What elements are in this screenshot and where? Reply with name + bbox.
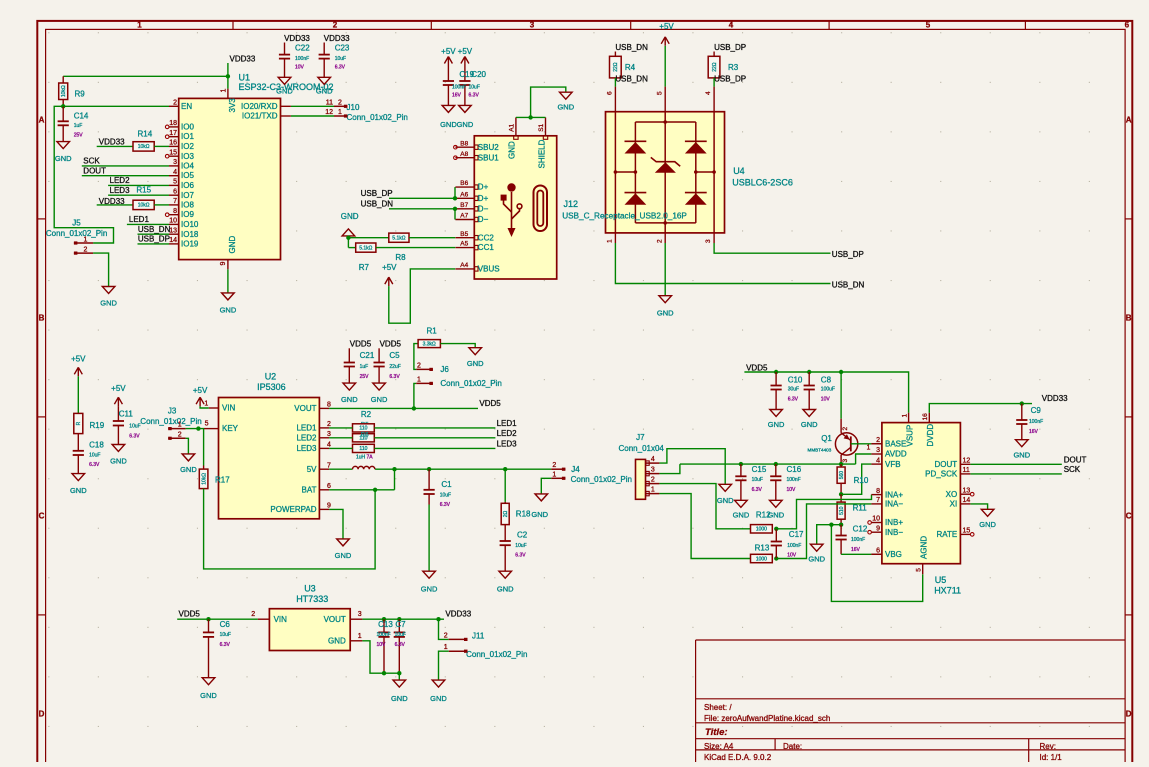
svg-text:D−: D− xyxy=(478,204,489,213)
svg-text:2: 2 xyxy=(178,431,182,438)
svg-text:Conn_01x04: Conn_01x04 xyxy=(619,444,665,453)
svg-text:SCK: SCK xyxy=(83,157,100,166)
svg-text:GND: GND xyxy=(100,299,117,308)
svg-text:1: 1 xyxy=(651,486,655,493)
svg-text:7: 7 xyxy=(173,198,177,205)
svg-text:Date:: Date: xyxy=(783,742,802,751)
junction J11 riser xyxy=(436,617,440,621)
svg-text:GND: GND xyxy=(421,585,438,594)
wire SCK to label xyxy=(970,473,1061,475)
svg-text:R11: R11 xyxy=(853,504,868,513)
J12 pin SBU1 (A8) xyxy=(455,157,474,159)
svg-text:RATE: RATE xyxy=(936,530,957,539)
svg-text:560: 560 xyxy=(839,471,845,480)
U5 pin INB+ (10) xyxy=(871,522,882,524)
junction AGND riser xyxy=(829,523,833,527)
svg-text:15: 15 xyxy=(169,149,177,156)
svg-text:VSUP: VSUP xyxy=(906,425,915,447)
U2 pin LED1 (2) xyxy=(319,427,329,429)
J12 USB-C plug glyph xyxy=(534,186,548,232)
svg-text:LED2: LED2 xyxy=(296,433,317,442)
svg-text:R10: R10 xyxy=(854,476,869,485)
svg-text:U5: U5 xyxy=(935,575,947,585)
svg-text:6.3V: 6.3V xyxy=(788,397,799,403)
U2 pin VOUT (8) xyxy=(319,407,329,409)
J7 pin 4 xyxy=(646,462,660,464)
svg-text:GND: GND xyxy=(341,395,358,404)
junction C7 xyxy=(397,617,401,621)
wire U4 pin3 to USB_DP label xyxy=(714,243,830,253)
wire VDD33 to R15 xyxy=(97,204,133,206)
svg-text:LED3: LED3 xyxy=(296,444,317,453)
svg-text:2: 2 xyxy=(327,421,331,428)
svg-text:USB_DP: USB_DP xyxy=(714,43,746,52)
svg-text:2: 2 xyxy=(444,632,448,639)
resistor R4 22R xyxy=(614,52,616,57)
U1 pin EN (2) xyxy=(169,105,179,107)
svg-text:IO7: IO7 xyxy=(181,191,194,200)
svg-text:2Ω: 2Ω xyxy=(503,510,509,517)
svg-text:4: 4 xyxy=(651,456,655,463)
svg-text:C6: C6 xyxy=(220,620,231,629)
wire +5V to U4 pin5 xyxy=(664,46,666,87)
wire Q1 base to U5 BASE xyxy=(851,443,872,445)
wire VOUT to VDD5 label xyxy=(329,407,478,409)
svg-text:100uF: 100uF xyxy=(821,387,835,393)
svg-text:8: 8 xyxy=(876,488,880,495)
svg-text:POWERPAD: POWERPAD xyxy=(270,505,316,514)
ground below C6 xyxy=(202,678,215,685)
svg-text:R14: R14 xyxy=(138,130,153,139)
wire +5V to VBUS xyxy=(389,269,455,323)
svg-text:6.3V: 6.3V xyxy=(469,93,480,99)
svg-text:A: A xyxy=(39,116,45,125)
U2 pin POWERPAD (9) xyxy=(319,508,329,510)
junction C13 bottom xyxy=(382,671,386,675)
wire U4 pin2 to ground xyxy=(664,243,666,296)
wire VDD33 to R14 xyxy=(97,145,133,147)
svg-text:C5: C5 xyxy=(389,351,400,360)
U1 pin IO3 (15) xyxy=(169,155,179,157)
ground below C10 xyxy=(770,410,783,417)
capacitor C16 xyxy=(775,464,777,476)
svg-text:6.3V: 6.3V xyxy=(129,433,140,439)
svg-text:IO0: IO0 xyxy=(181,123,194,132)
svg-text:C9: C9 xyxy=(1031,406,1042,415)
svg-text:2: 2 xyxy=(417,362,421,369)
wire +5V to VIN xyxy=(200,406,209,408)
svg-text:5: 5 xyxy=(926,20,931,29)
svg-text:10uF: 10uF xyxy=(89,452,100,458)
capacitor C8 xyxy=(808,372,810,386)
svg-text:1000: 1000 xyxy=(756,556,767,562)
svg-text:IO18: IO18 xyxy=(181,230,199,239)
resistor R3 22R xyxy=(713,52,715,57)
U1 pin IO6 (5) xyxy=(169,184,179,186)
svg-text:22uF: 22uF xyxy=(389,364,400,370)
wire +5V to R19 xyxy=(77,376,79,413)
junction C1 xyxy=(427,467,431,471)
resistor R8 5.1k xyxy=(389,233,409,242)
capacitor C15 xyxy=(740,464,742,476)
U1 pin GND (9) xyxy=(227,260,229,270)
svg-text:VBUS: VBUS xyxy=(478,265,500,274)
svg-text:1: 1 xyxy=(417,376,421,383)
J12 pin SBU2 (B8) xyxy=(455,146,474,148)
junction C13 xyxy=(382,617,386,621)
svg-text:10V: 10V xyxy=(821,397,831,403)
svg-text:7: 7 xyxy=(327,462,331,469)
IC U1 ESP32-C3-WROOM-02 body xyxy=(179,98,281,259)
svg-text:7: 7 xyxy=(876,497,880,504)
ground below C2 xyxy=(499,571,512,578)
svg-text:13: 13 xyxy=(963,487,971,494)
svg-text:1: 1 xyxy=(444,644,448,651)
svg-text:USB_DN: USB_DN xyxy=(615,74,648,83)
svg-text:GND: GND xyxy=(531,510,548,519)
svg-text:B: B xyxy=(1126,314,1132,323)
junction BAT/loop xyxy=(373,488,377,492)
ground at XI xyxy=(981,509,994,516)
capacitor C11 10uF xyxy=(117,406,119,421)
svg-text:AVDD: AVDD xyxy=(885,450,907,459)
U5 pin DVDD (16) xyxy=(928,413,930,423)
U3 pin VIN (2) xyxy=(258,618,270,620)
svg-text:4: 4 xyxy=(705,91,712,95)
svg-text:D: D xyxy=(39,710,45,719)
U1 pin IO0 (18) xyxy=(169,126,179,128)
svg-text:B7: B7 xyxy=(460,202,468,209)
svg-text:6.3V: 6.3V xyxy=(515,553,526,559)
wire LED3 xyxy=(108,194,169,196)
svg-text:100nF: 100nF xyxy=(851,537,865,543)
svg-text:C21: C21 xyxy=(360,351,375,360)
svg-text:R8: R8 xyxy=(395,253,406,262)
svg-text:R17: R17 xyxy=(215,476,230,485)
svg-text:C10: C10 xyxy=(788,375,803,384)
junction A1/S1 xyxy=(528,115,532,119)
svg-text:GND: GND xyxy=(328,637,346,646)
U3 pin GND (1) xyxy=(350,640,362,642)
wire U3 GND to rail xyxy=(362,641,399,680)
svg-text:USB_DN: USB_DN xyxy=(832,280,865,289)
IC U4 USBLC6-2SC6 body xyxy=(606,112,725,233)
svg-text:16: 16 xyxy=(169,140,177,147)
J7 pin 1 xyxy=(646,493,660,495)
svg-text:4: 4 xyxy=(729,20,734,29)
svg-text:13: 13 xyxy=(169,227,177,234)
svg-text:DVDD: DVDD xyxy=(926,424,935,447)
svg-text:+5V: +5V xyxy=(382,263,397,272)
svg-text:2: 2 xyxy=(656,239,663,243)
svg-text:INA+: INA+ xyxy=(885,490,903,499)
svg-text:16V: 16V xyxy=(1029,429,1039,435)
svg-text:XO: XO xyxy=(946,490,958,499)
wire U1 TXD to J10 xyxy=(291,115,334,117)
svg-text:DOUT: DOUT xyxy=(83,167,106,176)
wire 5V pin to inductor xyxy=(329,468,352,470)
ground at J4 xyxy=(535,494,548,501)
svg-text:1uF: 1uF xyxy=(360,364,369,370)
wire to R18 xyxy=(504,469,506,502)
svg-text:6: 6 xyxy=(1125,20,1130,29)
wire R8 to CC2 xyxy=(409,237,455,239)
IC U2 IP5306 body xyxy=(219,398,320,519)
svg-text:10kΩ: 10kΩ xyxy=(61,85,67,97)
svg-text:16V: 16V xyxy=(452,93,462,99)
wire LED1 xyxy=(127,223,169,225)
svg-text:VDD5: VDD5 xyxy=(179,610,201,619)
svg-text:16V: 16V xyxy=(851,547,861,553)
svg-text:7A: 7A xyxy=(367,454,374,460)
U4 zener diode xyxy=(655,162,676,173)
svg-text:GND: GND xyxy=(440,120,457,129)
wire VFB to R10/R11 node xyxy=(841,464,871,494)
ground at J5 xyxy=(102,287,115,294)
U2 pin VIN (1) xyxy=(209,407,219,409)
ground at J12 shield xyxy=(560,92,573,99)
svg-text:MMBT4403: MMBT4403 xyxy=(808,447,832,452)
svg-text:1: 1 xyxy=(607,239,614,243)
svg-text:GND: GND xyxy=(467,359,484,368)
svg-text:VDD5: VDD5 xyxy=(746,364,768,373)
svg-text:D+: D+ xyxy=(478,183,489,192)
svg-text:11: 11 xyxy=(963,467,970,474)
svg-text:IO4: IO4 xyxy=(181,162,194,171)
svg-text:C8: C8 xyxy=(821,375,832,384)
svg-text:+5V: +5V xyxy=(659,22,674,31)
svg-text:10kΩ: 10kΩ xyxy=(201,473,207,485)
junction R12/C17 xyxy=(774,527,778,531)
wire R15 to U1 IO8 xyxy=(154,204,169,206)
wire R11 bottom to ground xyxy=(817,525,841,545)
svg-text:R13: R13 xyxy=(755,544,770,553)
svg-text:12: 12 xyxy=(963,458,971,465)
svg-text:VDD5: VDD5 xyxy=(479,399,501,408)
svg-text:C23: C23 xyxy=(335,44,350,53)
capacitor C9 100nF xyxy=(1021,404,1023,420)
svg-text:C18: C18 xyxy=(89,441,104,450)
svg-text:2: 2 xyxy=(552,462,556,469)
svg-text:15: 15 xyxy=(963,528,971,535)
svg-text:5.1kΩ: 5.1kΩ xyxy=(392,236,405,242)
svg-text:A6: A6 xyxy=(460,191,468,198)
svg-text:1: 1 xyxy=(358,633,362,640)
U5 pin AGND (5) xyxy=(922,564,924,575)
U5 pin DOUT (12) xyxy=(960,463,970,465)
wire J6 pin2 to R1 xyxy=(414,344,418,370)
svg-text:GND: GND xyxy=(657,309,674,318)
svg-text:R1: R1 xyxy=(427,326,438,335)
svg-text:10uF: 10uF xyxy=(129,424,140,430)
svg-text:USBLC6-2SC6: USBLC6-2SC6 xyxy=(732,178,793,188)
svg-text:25V: 25V xyxy=(74,133,84,139)
svg-text:AGND: AGND xyxy=(919,536,928,559)
wire 5V to BAT xyxy=(394,469,396,490)
resistor R17 10k xyxy=(203,466,205,470)
svg-text:30uF: 30uF xyxy=(788,387,799,393)
U5 pin VSUP (1) xyxy=(908,413,910,423)
svg-text:10: 10 xyxy=(169,218,177,225)
svg-text:LED3: LED3 xyxy=(110,186,131,195)
capacitor C23 10uF xyxy=(323,43,325,55)
svg-text:R18: R18 xyxy=(516,510,531,519)
svg-text:10: 10 xyxy=(872,516,880,523)
junction R18 xyxy=(503,467,507,471)
svg-text:10V: 10V xyxy=(787,553,797,559)
wire CC2 net xyxy=(348,237,388,239)
svg-text:BAT: BAT xyxy=(302,485,317,494)
junction J6 riser xyxy=(412,406,416,410)
svg-text:3V3: 3V3 xyxy=(228,98,237,113)
wire USB_DP xyxy=(138,243,170,245)
ground at J11 xyxy=(432,680,445,687)
wire U1 RXD to J10 xyxy=(291,105,334,107)
svg-text:6: 6 xyxy=(607,91,614,95)
ground at J7 pin4 xyxy=(719,484,732,491)
svg-text:110: 110 xyxy=(359,426,367,432)
svg-text:1: 1 xyxy=(137,20,142,29)
resistor R7 5.1k xyxy=(356,243,376,252)
svg-text:GND: GND xyxy=(228,236,237,254)
svg-text:R6: R6 xyxy=(361,433,369,439)
svg-text:VFB: VFB xyxy=(885,460,901,469)
wire R7 to CC1 xyxy=(376,247,455,249)
U4 pin 5 xyxy=(664,87,666,112)
svg-text:D+: D+ xyxy=(478,194,489,203)
svg-text:VIN: VIN xyxy=(222,404,236,413)
U1 pin IO8 (7) xyxy=(169,204,179,206)
svg-text:GND: GND xyxy=(276,87,293,96)
svg-text:22Ω: 22Ω xyxy=(613,62,619,72)
ground below C15 xyxy=(735,500,748,507)
svg-text:INB−: INB− xyxy=(885,528,903,537)
svg-text:INB+: INB+ xyxy=(885,518,903,527)
capacitor C21 xyxy=(348,348,350,362)
svg-text:GND: GND xyxy=(457,120,474,129)
svg-text:B5: B5 xyxy=(460,231,468,238)
ground below C8 xyxy=(803,410,816,417)
svg-text:J7: J7 xyxy=(636,433,645,442)
capacitor C6 10uF xyxy=(208,619,210,632)
svg-text:+5V: +5V xyxy=(458,47,473,56)
svg-text:VIN: VIN xyxy=(274,615,288,624)
svg-text:2: 2 xyxy=(84,246,88,253)
power +5V at C19 xyxy=(444,57,452,66)
svg-text:3: 3 xyxy=(327,431,331,438)
svg-text:5: 5 xyxy=(205,421,209,428)
U1 pin IO1 (17) xyxy=(169,136,179,138)
svg-text:10V: 10V xyxy=(377,642,387,648)
svg-text:6: 6 xyxy=(876,548,880,555)
svg-text:12: 12 xyxy=(325,109,333,116)
svg-text:100nF: 100nF xyxy=(787,543,801,549)
wire DVDD to VDD33 xyxy=(929,404,1032,413)
svg-text:LED2: LED2 xyxy=(110,176,131,185)
svg-text:C12: C12 xyxy=(853,524,868,533)
svg-text:IO3: IO3 xyxy=(181,152,194,161)
junction KEY xyxy=(196,426,200,430)
svg-text:J10: J10 xyxy=(347,103,360,112)
svg-text:GND: GND xyxy=(497,585,514,594)
U5 pin RATE (15) xyxy=(960,533,970,535)
capacitor C22 100nF xyxy=(284,43,286,55)
svg-text:IO5: IO5 xyxy=(181,171,194,180)
svg-text:3: 3 xyxy=(705,239,712,243)
wire BAT net xyxy=(329,489,394,491)
U1 pin IO4 (3) xyxy=(169,165,179,167)
svg-text:510: 510 xyxy=(839,506,845,515)
svg-text:VDD33: VDD33 xyxy=(445,610,471,619)
U5 pin XI (14) xyxy=(960,503,970,505)
wire EN to J5 pin1 xyxy=(54,106,113,243)
wire J7 pin3 to AVDD rail xyxy=(659,464,680,474)
svg-text:USB_DP: USB_DP xyxy=(361,189,393,198)
U5 pin AVDD (3) xyxy=(871,453,882,455)
junction C7 bottom xyxy=(397,671,401,675)
ground below C9 xyxy=(1016,440,1029,447)
svg-text:1: 1 xyxy=(867,444,871,451)
svg-text:C17: C17 xyxy=(789,530,804,539)
wire VDD33 to U1 pin1 xyxy=(227,63,229,89)
wire J5 pin2 to ground xyxy=(93,253,109,286)
ground below C16 xyxy=(770,500,783,507)
wire EN net xyxy=(63,105,169,107)
junction 5V/BAT riser xyxy=(392,467,396,471)
svg-text:VDD33: VDD33 xyxy=(284,34,310,43)
svg-text:3: 3 xyxy=(651,466,655,473)
svg-text:3: 3 xyxy=(358,611,362,618)
J12 USB symbol xyxy=(501,183,522,237)
svg-text:1: 1 xyxy=(178,422,182,429)
svg-text:GND: GND xyxy=(557,103,574,112)
U2 pin LED2 (3) xyxy=(319,437,329,439)
svg-text:A: A xyxy=(1126,116,1132,125)
svg-text:GND: GND xyxy=(808,555,825,564)
svg-text:R4: R4 xyxy=(625,63,636,72)
U5 pin PD_SCK (11) xyxy=(960,473,970,475)
svg-text:6.3V: 6.3V xyxy=(220,642,231,648)
ground below U4 xyxy=(659,296,672,303)
U5 pin INB− (9) xyxy=(871,531,882,533)
U1 pin 3V3 (1) xyxy=(227,89,229,99)
svg-text:HT7333: HT7333 xyxy=(296,594,328,604)
junction at U1 3V3 xyxy=(226,74,230,78)
svg-text:C15: C15 xyxy=(752,465,767,474)
ground below C19 xyxy=(442,105,455,112)
svg-text:USB_C_Receptacle_USB2.0_16P: USB_C_Receptacle_USB2.0_16P xyxy=(562,212,687,221)
wire VDD33 rail to R9 xyxy=(63,75,228,77)
svg-text:R19: R19 xyxy=(90,421,105,430)
svg-text:CC2: CC2 xyxy=(478,233,495,242)
U4 pin 2 xyxy=(664,233,666,243)
svg-text:10uF: 10uF xyxy=(335,56,346,62)
svg-text:KEY: KEY xyxy=(222,424,239,433)
resistor R1 3.3k xyxy=(418,340,440,348)
wire CC1 branch xyxy=(347,238,349,248)
ground below C20 xyxy=(459,105,472,112)
J12 pin VBUS (A4) xyxy=(455,268,474,270)
svg-text:1: 1 xyxy=(338,109,342,116)
J12 pin D+ (A6) xyxy=(455,197,474,199)
svg-text:LED1: LED1 xyxy=(497,419,518,428)
svg-text:GND: GND xyxy=(200,691,217,700)
ground at J3 xyxy=(182,454,195,461)
U5 pin VFB (4) xyxy=(871,463,882,465)
svg-text:C11: C11 xyxy=(119,410,134,419)
U2 pin 5V (7) xyxy=(319,468,329,470)
svg-text:11: 11 xyxy=(326,99,333,106)
